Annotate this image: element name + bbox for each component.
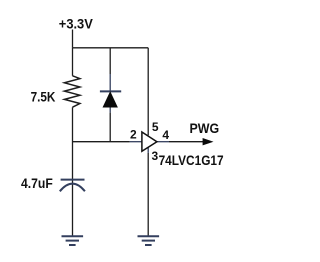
svg-text:+3.3V: +3.3V [59, 15, 94, 31]
svg-text:4.7uF: 4.7uF [21, 175, 53, 191]
svg-text:3: 3 [152, 149, 159, 163]
svg-text:4: 4 [162, 128, 169, 142]
svg-text:PWG: PWG [190, 120, 220, 136]
svg-text:74LVC1G17: 74LVC1G17 [159, 152, 224, 168]
svg-text:2: 2 [130, 128, 137, 142]
svg-text:5: 5 [152, 120, 159, 134]
svg-text:7.5K: 7.5K [31, 88, 56, 104]
